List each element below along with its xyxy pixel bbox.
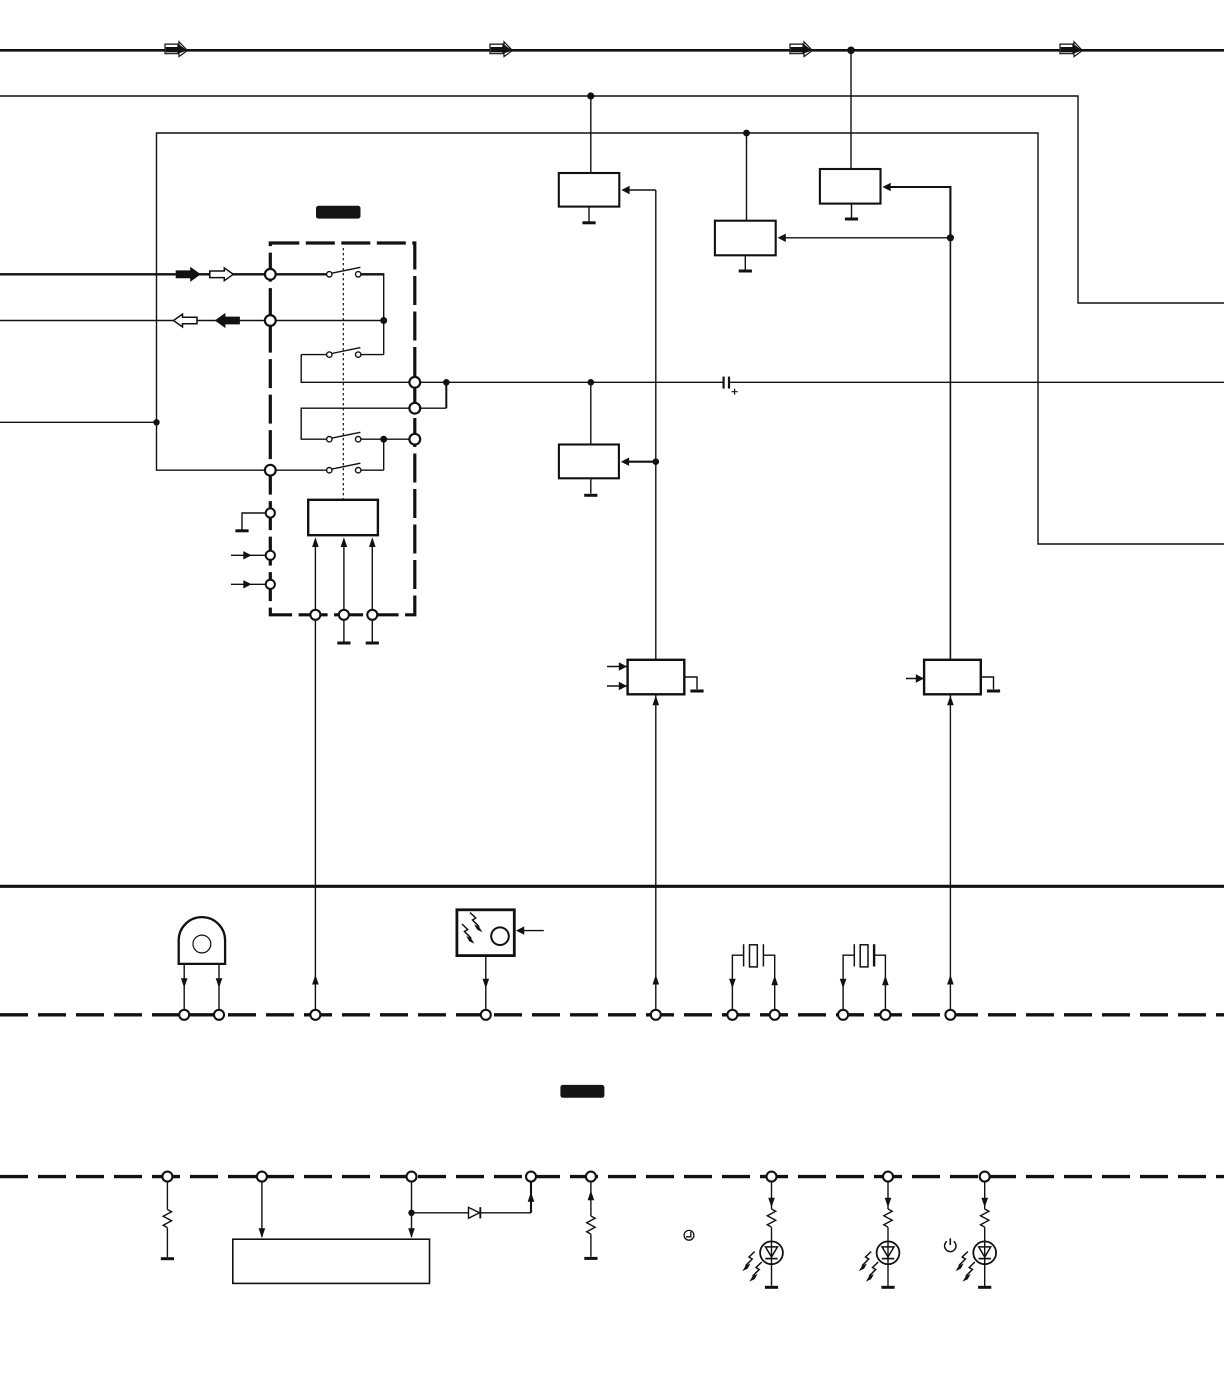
node: row3 junction bbox=[380, 436, 387, 443]
IC box U5 servo left bbox=[628, 660, 685, 695]
wire: right long vertical bbox=[949, 238, 951, 660]
crystal X2 bbox=[843, 955, 854, 1010]
switch row4 bbox=[276, 469, 327, 471]
wire: capacitor line from switch to right edge bbox=[420, 381, 723, 383]
wire: second rail with corner to right edge bbox=[0, 96, 1224, 303]
node: row2 junction bbox=[380, 317, 387, 324]
pin: input arrow 1 bbox=[231, 554, 266, 556]
wire: selector dotted line bbox=[342, 248, 344, 500]
switch row1 wiring bbox=[276, 273, 327, 275]
wire: outline flow arrow right row1 bbox=[210, 268, 234, 281]
wire: outline flow arrow left row2 bbox=[174, 314, 198, 327]
IC box U6 servo right bbox=[924, 660, 981, 695]
wire: left thick signal line row1 bbox=[0, 273, 265, 275]
switch detector box inside block bbox=[308, 500, 378, 535]
node: junction on second rail bbox=[587, 92, 594, 99]
wire: mid long vertical from U1 arrow bbox=[655, 190, 657, 660]
pin: ground pin with lead bbox=[242, 513, 266, 530]
wire: flow arrow 1 on top rail bbox=[165, 42, 187, 57]
switch row3 bbox=[361, 438, 410, 440]
grounds under switch block bbox=[343, 620, 345, 642]
wire: third rail big loop from switch to right edge bbox=[157, 133, 1224, 544]
node: junction on right vertical bbox=[947, 234, 954, 241]
wire: flow arrow 3 on top rail bbox=[790, 42, 812, 57]
wire: top power rail bbox=[0, 49, 1224, 52]
label: redacted name above harness 2 bbox=[560, 1085, 604, 1098]
wire: row2 horizontal bbox=[276, 320, 384, 322]
connector: dashed harness line 1 bbox=[0, 1013, 1224, 1016]
switch row2 bbox=[301, 354, 326, 356]
pins: left edge connectors of switch block bbox=[265, 269, 276, 280]
capacitor C1 polarized bbox=[722, 377, 724, 389]
wire: solid flow arrow right row1 bbox=[176, 268, 200, 281]
IC box U1 top bbox=[590, 96, 592, 173]
wire: left signal line row2 bbox=[0, 320, 265, 322]
wires: three sense lines into detector box bbox=[314, 547, 316, 610]
pin: input arrow 2 bbox=[231, 583, 266, 585]
pins on harness 1 bbox=[179, 1010, 189, 1020]
IC box system controller bbox=[233, 1239, 430, 1283]
ground bbox=[235, 530, 248, 532]
wire: left input line to junction bbox=[0, 421, 157, 423]
node: junction above U4 bbox=[588, 379, 595, 386]
pins: right edge connectors of switch block bbox=[409, 377, 420, 388]
photo sensor PS1 bbox=[457, 910, 514, 956]
resistor R2 to ground bbox=[590, 1182, 592, 1216]
wire: arrow into system box bbox=[261, 1182, 263, 1237]
pins on harness 2 bbox=[162, 1172, 172, 1182]
node: junction on mid vertical bbox=[653, 458, 660, 465]
separator: board boundary thick line bbox=[0, 885, 1224, 888]
resistor R1 to ground bbox=[166, 1182, 168, 1210]
LED D4 with resistor bbox=[956, 1182, 997, 1287]
pins: bottom edge connectors of switch block bbox=[310, 610, 320, 620]
wire: flow arrow 2 on top rail bbox=[490, 42, 512, 57]
motor M1 bbox=[179, 917, 225, 964]
wire: long vertical from switch bottom to connector bbox=[314, 620, 316, 1010]
diode D1 bbox=[412, 1212, 469, 1214]
IC box U4 bbox=[590, 382, 592, 444]
node: junction near switch bbox=[443, 379, 450, 386]
icon: power standby bbox=[945, 1241, 956, 1251]
wire: second arrow into system box with branch bbox=[411, 1182, 413, 1237]
connector: dashed harness line 2 bbox=[0, 1175, 1224, 1178]
wire: solid flow arrow left row2 bbox=[216, 314, 240, 327]
label: redacted name above switch block bbox=[316, 206, 361, 219]
crystal X1 bbox=[732, 955, 743, 1010]
node: junction on top rail bbox=[847, 47, 855, 55]
icon: timer clock bbox=[684, 1230, 694, 1240]
LED D3 with resistor bbox=[859, 1182, 900, 1287]
switch row1 contacts and blade bbox=[332, 267, 361, 273]
LED D2 with resistor bbox=[742, 1182, 783, 1287]
IC box U3 top right bbox=[850, 50, 852, 169]
node: junction on third rail top bbox=[743, 130, 750, 137]
wire: flow arrow 4 on top rail bbox=[1060, 42, 1082, 57]
IC box U2 middle bbox=[746, 133, 748, 221]
switch block S (dashed enclosure) bbox=[270, 243, 415, 615]
switch row3 feed from right bbox=[301, 408, 409, 439]
node: junction on left vertical bbox=[153, 419, 159, 425]
node: branch junction bbox=[408, 1210, 414, 1216]
